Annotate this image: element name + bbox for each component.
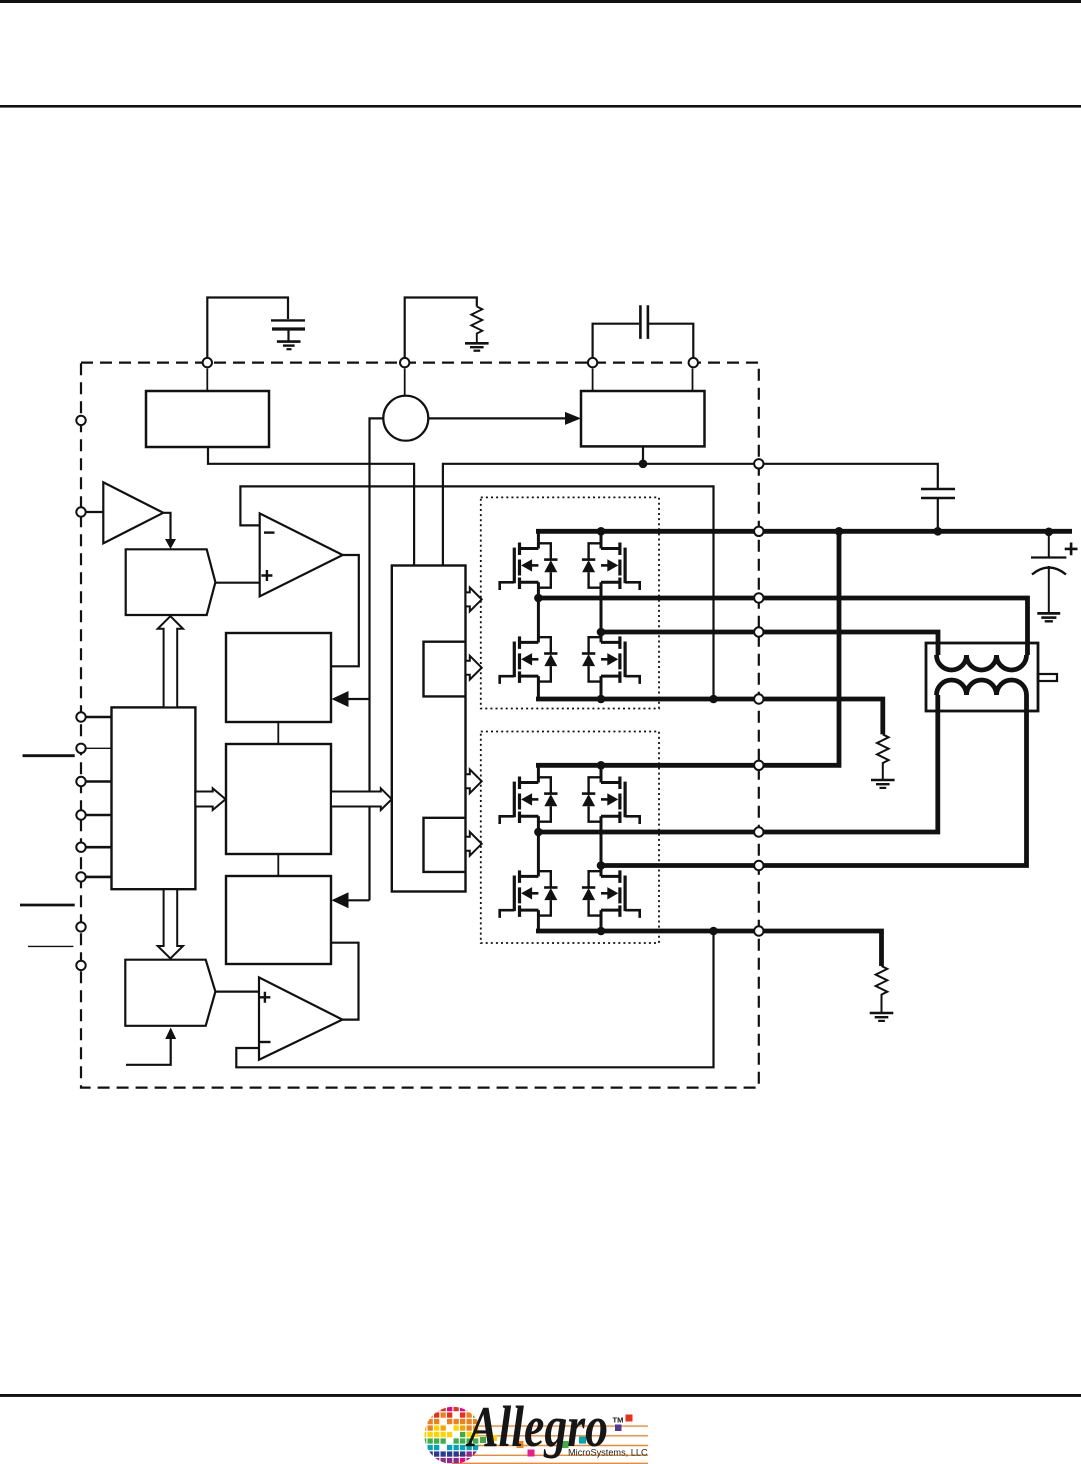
- header rule top: [0, 0, 1081, 3]
- ground RS2: [870, 1013, 894, 1021]
- transistor Q6 source stem: [600, 816, 603, 865]
- transistor Q6 drain stem: [600, 765, 603, 782]
- transistor Q5 drain stem: [537, 765, 540, 782]
- transistor Q7: [500, 870, 558, 918]
- chip boundary (dashed): [81, 363, 759, 1088]
- bridge 1 sense bus: [536, 699, 883, 734]
- node D phase line: [601, 695, 1027, 866]
- off-time block: [226, 876, 331, 964]
- wire charge pump to VBB net: [642, 446, 644, 463]
- transistor Q2: [582, 543, 640, 591]
- capacitor CP: [640, 305, 648, 339]
- wire CP2 pin to charge pump: [692, 369, 694, 392]
- junction charge pump VBB: [639, 460, 648, 469]
- wire CMP1 output to PWM latch: [331, 555, 359, 666]
- transistor Q1: [500, 543, 558, 591]
- capacitor C1: [271, 320, 305, 340]
- wire amplifier A1 to DAC1: [163, 513, 170, 540]
- terminal pins right border: [754, 459, 763, 936]
- node A phase line: [537, 598, 1028, 655]
- logo scattered squares: [480, 1415, 633, 1457]
- transistor Q7 drain stem: [537, 832, 540, 876]
- DAC2: [125, 960, 215, 1026]
- transistor Q5: [500, 777, 558, 825]
- arrowhead into DAC1 top: [165, 539, 176, 549]
- wire off-time connector: [277, 854, 279, 876]
- external stub line 3: [28, 945, 73, 947]
- motor winding 2: [937, 680, 1027, 695]
- wire VDD cap top: [207, 298, 288, 363]
- wire VDD pin to regulator: [206, 369, 208, 392]
- pin wires to control logic: [86, 717, 112, 877]
- wire regulator to gate drive supply: [208, 447, 414, 566]
- junction dots power nets: [534, 527, 1053, 935]
- transistor Q2 drain stem: [600, 531, 603, 548]
- ground VBB cap: [1037, 613, 1060, 621]
- sense resistor RS1: [877, 734, 889, 779]
- transistor Q5 source stem: [537, 816, 540, 832]
- bridge 1 dotted box: [481, 497, 659, 708]
- plus label CMP2: [259, 992, 270, 1003]
- gate drive inner block 2: [424, 818, 466, 872]
- wire oscillator left down trunk: [370, 418, 384, 900]
- plus label VBB cap: [1065, 543, 1078, 556]
- hollow arrow blanking to gate drive: [331, 788, 392, 810]
- wire CMP2 minus feedback: [236, 931, 713, 1067]
- logo wafer circle squares: [421, 1406, 478, 1463]
- wire CMP1 minus feedback: [240, 486, 713, 699]
- wire DAC1 to comparator 1: [215, 582, 259, 584]
- wire RT pin to oscillator: [404, 369, 406, 396]
- transistor Q3 source stem: [537, 676, 540, 699]
- gate drive output arrow 4: [466, 832, 482, 856]
- wire stub into DAC2 bottom: [126, 1038, 171, 1065]
- transistor Q4 source stem: [600, 676, 603, 699]
- ground RS1: [871, 780, 895, 788]
- hollow arrow control logic to blanking: [195, 788, 225, 810]
- minus label CMP2: [260, 1041, 271, 1043]
- ground RT: [465, 343, 489, 350]
- amplifier A1: [103, 482, 163, 543]
- wire oscillator to charge pump: [428, 417, 566, 419]
- transistor Q3 drain stem: [537, 598, 540, 642]
- motor winding 1: [937, 655, 1027, 670]
- oscillator U-OSC: [383, 396, 428, 441]
- gate drive output arrow 2: [466, 656, 482, 680]
- wire CP1 pin to charge pump: [592, 369, 594, 392]
- control logic block: [112, 707, 196, 889]
- transistor Q1 source stem: [537, 582, 540, 598]
- blanking block: [226, 744, 331, 854]
- bridge 2 dotted box: [481, 732, 659, 944]
- footer rule: [0, 1394, 1081, 1397]
- DAC1: [126, 549, 216, 615]
- wire blanking connector: [277, 722, 279, 744]
- gate drive inner block 1: [424, 642, 466, 697]
- VBB supply bus: [536, 529, 1072, 534]
- hollow arrow control logic to DAC1: [158, 616, 183, 707]
- bridge 2 sense bus: [536, 931, 882, 966]
- wire VBB net: [443, 464, 938, 566]
- wire CP cap right: [649, 324, 693, 363]
- transistor Q8 source stem: [600, 910, 603, 931]
- transistor Q2 source stem: [600, 582, 603, 632]
- gate drive block: [392, 566, 466, 892]
- wire CP cap left: [593, 324, 639, 363]
- minus label CMP1: [264, 531, 275, 533]
- arrowhead oscillator into PWM latch: [346, 698, 370, 700]
- PWM latch block: [226, 633, 331, 722]
- gate drive output arrow 1: [466, 588, 482, 612]
- node C phase line: [537, 695, 938, 832]
- plus label CMP1: [261, 570, 272, 581]
- transistor Q4 drain stem: [600, 632, 603, 642]
- bridge 2 supply line: [536, 531, 839, 765]
- transistor Q1 drain stem: [537, 531, 540, 548]
- header rule bottom: [0, 105, 1081, 108]
- wire RT resistor top: [405, 298, 477, 363]
- ground C1: [277, 342, 301, 350]
- arrowhead oscillator into off-time block: [346, 899, 370, 901]
- comparator CMP2: [259, 977, 342, 1059]
- terminal pins left border: [76, 416, 85, 970]
- svg-text:MicroSystems, LLC: MicroSystems, LLC: [568, 1448, 648, 1458]
- svg-text:TM: TM: [613, 1416, 624, 1425]
- wire CMP2 output to off-time block: [331, 943, 359, 1020]
- resistor RT: [471, 307, 482, 344]
- transistor Q3: [500, 636, 558, 684]
- arrowhead into DAC2 bottom: [165, 1028, 176, 1040]
- pin wire thin to control logic: [86, 747, 112, 749]
- sense resistor RS2: [876, 966, 888, 1012]
- external stub line 2: [20, 904, 75, 907]
- external stub line 1: [23, 754, 75, 757]
- motor shaft: [1038, 674, 1057, 681]
- wire pin to amplifier A1: [86, 511, 103, 513]
- capacitor VBB bypass: [921, 489, 955, 531]
- transistor Q6: [582, 777, 640, 825]
- arrowhead into charge pump: [565, 412, 581, 425]
- gate drive output arrow 3: [466, 769, 482, 793]
- transistor Q4: [582, 636, 640, 684]
- transistor Q7 source stem: [537, 910, 540, 931]
- regulator block: [146, 391, 269, 447]
- motor body: [926, 643, 1038, 711]
- charge pump block: [581, 391, 705, 446]
- transistor Q8: [582, 870, 640, 918]
- comparator CMP1: [260, 513, 343, 596]
- wire DAC2 to comparator 2: [215, 990, 259, 992]
- transistor Q8 drain stem: [600, 866, 603, 877]
- logo orange lines: [452, 1426, 648, 1463]
- capacitor VBB bulk: [1031, 533, 1066, 613]
- hollow arrow control logic to DAC2: [158, 889, 183, 958]
- terminal pins top border: [203, 358, 698, 367]
- node B phase line: [601, 632, 938, 655]
